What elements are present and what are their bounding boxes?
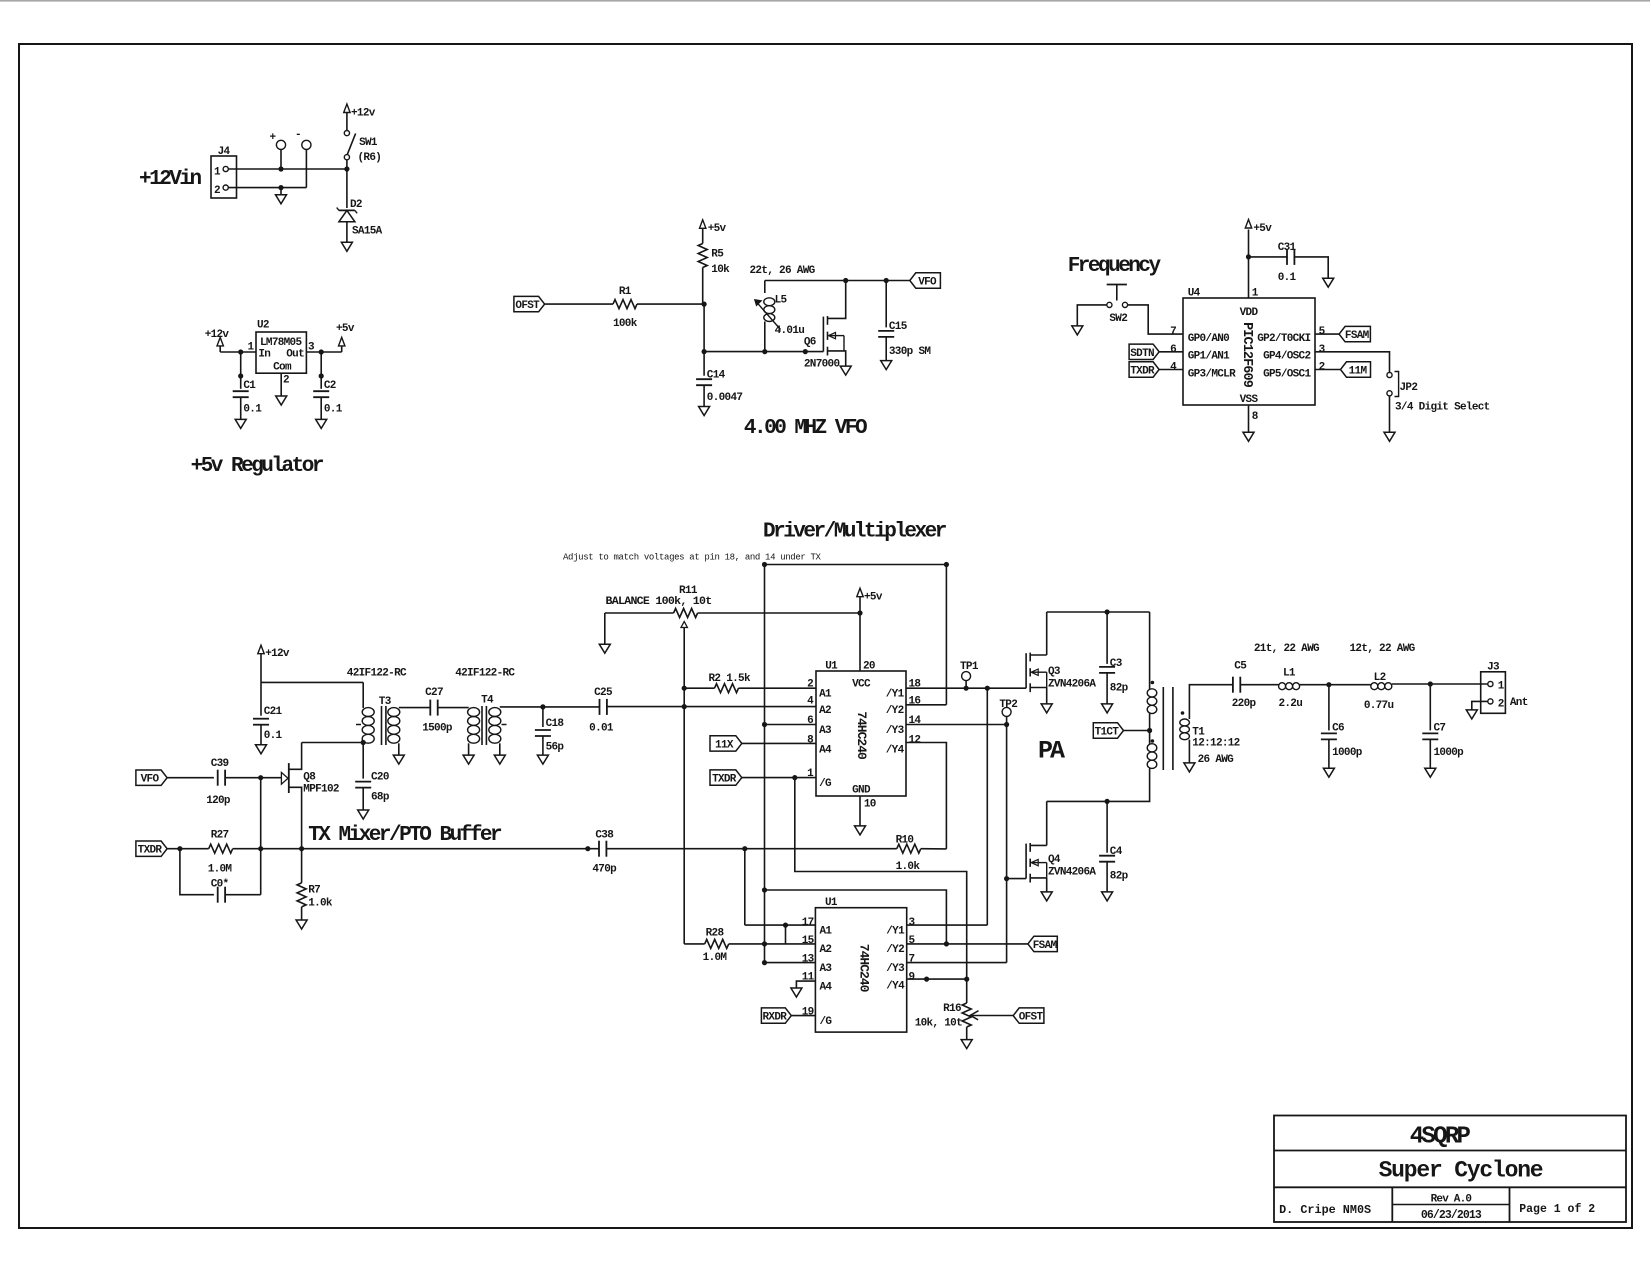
- power +5v: [857, 588, 883, 613]
- svg-text:C4: C4: [1110, 846, 1123, 858]
- svg-text:R28: R28: [706, 927, 725, 939]
- svg-text:19: 19: [802, 1007, 814, 1019]
- wire Q6 drain: [844, 281, 846, 319]
- svg-text:GP2/T0CKI: GP2/T0CKI: [1257, 333, 1310, 345]
- svg-text:/Y3: /Y3: [886, 725, 905, 737]
- ground: [1184, 763, 1195, 772]
- title block: [1274, 1116, 1626, 1223]
- svg-text:TP1: TP1: [960, 661, 979, 673]
- svg-text:C39: C39: [211, 758, 229, 770]
- junction: [924, 977, 929, 982]
- svg-text:C2: C2: [324, 380, 336, 392]
- label +5v Regulator: [191, 455, 324, 478]
- svg-text:FSAM: FSAM: [1345, 330, 1370, 342]
- svg-text:C38: C38: [595, 829, 614, 841]
- svg-text:R5: R5: [711, 249, 724, 261]
- ground: [881, 361, 892, 370]
- capacitor C6 1000p: [1321, 685, 1363, 769]
- svg-text:2: 2: [1498, 699, 1504, 711]
- transformer T3 42IF122-RC: [347, 667, 407, 755]
- label 4.00 MHZ VFO: [744, 417, 867, 440]
- ground: [1041, 704, 1052, 713]
- junction: [944, 562, 949, 567]
- svg-text:C21: C21: [264, 706, 283, 718]
- ground: [494, 755, 505, 764]
- ground: [1102, 704, 1113, 713]
- inductor L5 4.01u variable: [754, 295, 804, 352]
- svg-text:1.0M: 1.0M: [208, 864, 233, 876]
- svg-text:Rev A.0: Rev A.0: [1431, 1193, 1472, 1205]
- wire SW1 to D2: [346, 160, 348, 208]
- svg-text:OFST: OFST: [515, 300, 540, 312]
- wire rail to T1 top: [1149, 612, 1151, 689]
- junction: [682, 686, 687, 691]
- net TXDR: [710, 770, 816, 786]
- label TX Mixer/PTO Buffer: [308, 824, 502, 847]
- svg-text:A3: A3: [820, 963, 833, 975]
- svg-text:/Y3: /Y3: [886, 963, 905, 975]
- wire R27 to node: [233, 848, 302, 850]
- net TXDR: [136, 841, 167, 857]
- svg-text:22t, 26 AWG: 22t, 26 AWG: [750, 265, 816, 277]
- svg-text:Q8: Q8: [303, 771, 316, 783]
- wire /Y1 pin18: [906, 687, 1026, 689]
- junction: [944, 941, 949, 946]
- svg-text:C6: C6: [1332, 723, 1344, 735]
- junction Q8 source node: [299, 846, 304, 851]
- transistor Q8 MPF102 JFET: [281, 763, 338, 796]
- wire A3: [765, 962, 816, 964]
- wire /Y1 out: [907, 924, 988, 926]
- junction: [1004, 722, 1009, 727]
- ground: [699, 407, 710, 416]
- svg-text:R1: R1: [619, 286, 632, 298]
- IC U4 PIC12F609: [1170, 288, 1326, 424]
- svg-text:2.2u: 2.2u: [1278, 698, 1302, 710]
- svg-text:R16: R16: [943, 1003, 961, 1015]
- junction: [278, 185, 283, 190]
- junction: [278, 166, 283, 171]
- terminal + binding post: [270, 132, 286, 169]
- wire T1 sec bottom: [1188, 740, 1190, 763]
- svg-text:/Y4: /Y4: [886, 745, 905, 757]
- svg-text:C3: C3: [1110, 658, 1123, 670]
- net OFST: [1013, 1008, 1044, 1024]
- svg-text:7: 7: [909, 954, 915, 966]
- svg-text:+12v: +12v: [205, 329, 230, 341]
- svg-text:GP4/OSC2: GP4/OSC2: [1263, 351, 1310, 363]
- wire OFST to R1: [545, 303, 613, 305]
- svg-text:In: In: [258, 348, 270, 360]
- svg-text:10: 10: [864, 798, 876, 810]
- net VFO: [910, 273, 941, 289]
- resistor R10 1.0k: [896, 835, 921, 874]
- wire T1 bottom rail: [1047, 768, 1150, 801]
- wire /Y3 out: [907, 962, 1007, 964]
- svg-text:0.1: 0.1: [324, 403, 343, 415]
- junction: [762, 562, 767, 567]
- net RXDR: [761, 1008, 815, 1024]
- wire U2 com: [280, 373, 282, 396]
- IC U1 74HC240 driver: [807, 661, 921, 811]
- junction: [884, 278, 889, 283]
- ground: [341, 242, 352, 251]
- wire T1 sec top to C5: [1189, 685, 1233, 719]
- wire Q6 source: [844, 351, 846, 366]
- svg-text:12: 12: [909, 735, 921, 747]
- net TXDR: [1129, 362, 1183, 378]
- svg-text:C18: C18: [546, 718, 565, 730]
- svg-text:4.01u: 4.01u: [775, 325, 805, 337]
- ground: [1425, 768, 1436, 777]
- power +12v: [205, 329, 230, 352]
- svg-text:T1CT: T1CT: [1095, 727, 1120, 739]
- connector J4: [211, 146, 237, 198]
- svg-text:13: 13: [802, 954, 815, 966]
- resistor R27 1.0M: [208, 829, 233, 875]
- svg-text:10k, 10t: 10k, 10t: [915, 1017, 962, 1029]
- ground: [1072, 326, 1083, 335]
- svg-text:SW2: SW2: [1109, 313, 1127, 325]
- wire VFO to C39: [167, 777, 214, 779]
- svg-text:ZVN4206A: ZVN4206A: [1048, 867, 1096, 879]
- svg-text:/Y2: /Y2: [886, 944, 904, 956]
- wire U4 pin3 to JP2: [1315, 352, 1390, 373]
- capacitor C25 0.01: [589, 687, 614, 735]
- junction: [361, 740, 366, 745]
- svg-text:2: 2: [1319, 362, 1325, 374]
- wire A1: [745, 924, 816, 926]
- wire J4 pin2: [228, 187, 306, 189]
- svg-text:FSAM: FSAM: [1033, 940, 1058, 952]
- resistor R5 10k: [698, 244, 730, 276]
- junction: [783, 923, 788, 928]
- junction: [258, 846, 263, 851]
- junction: [762, 941, 767, 946]
- junction: [762, 960, 767, 965]
- wire T1 center tap: [1124, 714, 1153, 744]
- junction: [964, 686, 969, 691]
- junction: [319, 349, 324, 354]
- resistor R11 BALANCE 100k 10t: [605, 585, 860, 644]
- jumper JP2: [1387, 372, 1417, 397]
- junction: [857, 610, 862, 615]
- ground: [537, 755, 548, 764]
- wire wiper to R28: [683, 707, 685, 944]
- capacitor C31 0.1: [1249, 242, 1329, 284]
- wire source node to C38: [302, 848, 599, 850]
- wire A3 stub: [765, 724, 817, 726]
- svg-text:VSS: VSS: [1240, 394, 1259, 406]
- transformer T1 secondary: [1180, 711, 1240, 766]
- regulator U2 LM78M05: [247, 320, 315, 387]
- ground: [791, 988, 802, 997]
- ground: [599, 644, 610, 653]
- wire drop to lower A1: [744, 849, 746, 925]
- wire /Y2 out to FSAM: [907, 943, 1028, 945]
- svg-text:/G: /G: [820, 1016, 833, 1028]
- junction: [238, 349, 243, 354]
- testpoint TP1: [960, 661, 979, 688]
- resistor R7 1.0k: [297, 849, 333, 920]
- wire cross link: [765, 890, 947, 944]
- svg-text:RXDR: RXDR: [763, 1012, 788, 1024]
- transistor Q3 ZVN4206A: [1026, 653, 1096, 693]
- junction: [682, 704, 687, 709]
- net 11X: [710, 736, 816, 752]
- power +5v: [700, 220, 727, 244]
- svg-text:U4: U4: [1188, 288, 1201, 300]
- ground: [1243, 432, 1254, 441]
- inductor L2 0.77u: [1364, 672, 1394, 712]
- svg-text:ZVN4206A: ZVN4206A: [1048, 679, 1096, 691]
- ground: [1323, 768, 1334, 777]
- power +5v: [336, 323, 355, 352]
- svg-text:Ant: Ant: [1510, 697, 1528, 709]
- net T1CT: [1093, 723, 1123, 739]
- transformer T1 primary lower: [1147, 739, 1157, 768]
- wire TXDR to R27: [167, 848, 209, 850]
- junction: [344, 166, 349, 171]
- junction: [1246, 254, 1251, 259]
- node +12Vin label: [139, 168, 202, 191]
- wire Q8 source: [289, 787, 302, 848]
- ground: [961, 1040, 972, 1049]
- svg-text:Q4: Q4: [1048, 854, 1061, 866]
- svg-text:Page 1 of 2: Page 1 of 2: [1519, 1203, 1595, 1216]
- svg-text:U1: U1: [825, 897, 838, 909]
- svg-text:VFO: VFO: [918, 277, 937, 289]
- power +12v: [258, 645, 290, 682]
- svg-text:TX Mixer/PTO Buffer: TX Mixer/PTO Buffer: [308, 824, 502, 847]
- junction: [803, 349, 808, 354]
- svg-text:10k: 10k: [711, 264, 730, 276]
- transformer T4 42IF122-RC: [455, 667, 515, 755]
- svg-text:+5v Regulator: +5v Regulator: [191, 455, 324, 478]
- wire VSS: [1248, 405, 1250, 432]
- wire /G drop: [795, 778, 967, 980]
- wire C0 to gate node: [260, 778, 262, 895]
- svg-text:R10: R10: [896, 835, 914, 847]
- wire T3 sec to C27: [399, 707, 431, 709]
- svg-text:Q6: Q6: [804, 336, 816, 348]
- svg-text:42IF122-RC: 42IF122-RC: [455, 667, 515, 679]
- svg-text:R2 1.5k: R2 1.5k: [709, 673, 751, 685]
- wire R11 wiper: [681, 622, 687, 689]
- ground: [463, 755, 474, 764]
- wire /Y2 pin16: [906, 704, 946, 706]
- svg-text:VCC: VCC: [852, 679, 871, 691]
- svg-text:TXDR: TXDR: [1130, 366, 1155, 378]
- svg-text:+5v: +5v: [1253, 223, 1272, 235]
- ground: [316, 419, 327, 428]
- capacitor C15 330p: [878, 281, 931, 361]
- wire +12v rail to T3: [261, 681, 363, 683]
- svg-text:-: -: [295, 129, 301, 141]
- svg-text:C31: C31: [1278, 242, 1297, 254]
- junction: [1428, 681, 1433, 686]
- ground: [840, 366, 851, 375]
- wire VDD: [1248, 230, 1250, 299]
- svg-text:SW1: SW1: [359, 137, 378, 149]
- wire pin16 riser: [945, 565, 947, 705]
- svg-text:74HC240: 74HC240: [854, 711, 869, 760]
- ground: [1323, 278, 1334, 287]
- svg-text:1.0M: 1.0M: [703, 952, 728, 964]
- svg-text:TP2: TP2: [999, 699, 1017, 711]
- wire A3 riser: [764, 565, 766, 963]
- svg-text:12:12:12: 12:12:12: [1192, 738, 1239, 750]
- wire R28 to A2: [729, 943, 816, 945]
- wire A1 to A2 jumper: [785, 925, 787, 944]
- svg-text:330p SM: 330p SM: [889, 346, 931, 358]
- label PA: [1038, 736, 1065, 765]
- net OFST: [514, 296, 545, 312]
- power +12v: [344, 104, 376, 131]
- wire Q3 source to ground: [1046, 688, 1048, 704]
- svg-text:17: 17: [802, 917, 814, 929]
- connector J3 Ant: [1481, 662, 1528, 714]
- svg-text:220p: 220p: [1232, 698, 1257, 710]
- svg-text:0.01: 0.01: [589, 722, 614, 734]
- svg-text:J3: J3: [1487, 662, 1500, 674]
- wire Q4 gate stub: [1007, 878, 1027, 880]
- wire Q4 source to ground: [1046, 878, 1048, 892]
- svg-text:11M: 11M: [1349, 366, 1368, 378]
- svg-text:9: 9: [909, 972, 915, 984]
- label 3/4 Digit Select: [1395, 402, 1490, 414]
- wire /Y1 to lower U1: [986, 688, 988, 925]
- svg-text:Driver/Multiplexer: Driver/Multiplexer: [763, 521, 947, 544]
- wire /Y4 pin12: [906, 743, 946, 849]
- svg-text:U1: U1: [825, 661, 838, 673]
- wire /Y3 to Q4 gate: [1006, 725, 1008, 963]
- net FSAM: [1028, 936, 1058, 952]
- svg-text:1500p: 1500p: [422, 722, 453, 734]
- wire L5 top to VFO: [765, 281, 910, 294]
- junction: [1105, 799, 1110, 804]
- wire drain rail top: [1047, 611, 1150, 613]
- capacitor C39 120p: [206, 758, 231, 807]
- wire /Y3 pin14: [906, 724, 1007, 726]
- wire L2 to J3: [1392, 683, 1488, 685]
- svg-text:L1: L1: [1283, 668, 1296, 680]
- wire R1 to node: [637, 303, 704, 305]
- svg-text:+12v: +12v: [265, 648, 290, 660]
- junction: [843, 278, 848, 283]
- svg-text:26 AWG: 26 AWG: [1198, 754, 1235, 766]
- ground: [358, 810, 369, 819]
- junction: [585, 846, 590, 851]
- transformer T1 core: [1163, 687, 1173, 770]
- svg-text:+5v: +5v: [864, 591, 883, 603]
- junction: [762, 887, 767, 892]
- svg-text:1000p: 1000p: [1434, 747, 1465, 759]
- switch SW1 (R6): [344, 131, 381, 165]
- wire SW2 to U4 pin7: [1128, 305, 1183, 334]
- junction: [742, 846, 747, 851]
- capacitor C5 220p: [1232, 661, 1257, 710]
- ground: [276, 396, 287, 405]
- svg-text:42IF122-RC: 42IF122-RC: [347, 667, 407, 679]
- net FSAM: [1315, 326, 1370, 342]
- svg-text:L5: L5: [775, 295, 788, 307]
- svg-text:GP3/MCLR: GP3/MCLR: [1188, 368, 1236, 380]
- label 22t 26 AWG: [750, 265, 816, 277]
- capacitor C0* optional: [180, 849, 261, 903]
- svg-text:PIC12F609: PIC12F609: [1239, 322, 1254, 388]
- resistor R1 100k: [613, 286, 638, 330]
- svg-text:MPF102: MPF102: [303, 784, 339, 796]
- junction: [702, 349, 707, 354]
- inductor L1 2.2u: [1278, 668, 1302, 710]
- svg-text:2: 2: [283, 374, 289, 386]
- label Driver/Multiplexer: [763, 521, 947, 544]
- svg-text:470p: 470p: [592, 864, 617, 876]
- junction: [792, 775, 797, 780]
- svg-text:U2: U2: [257, 320, 269, 332]
- svg-text:A1: A1: [820, 926, 833, 938]
- wire Q8 drain to T3: [302, 742, 364, 744]
- svg-text:A3: A3: [819, 725, 832, 737]
- capacitor C1: [233, 352, 263, 419]
- svg-text:6: 6: [1170, 344, 1176, 356]
- svg-text:GP5/OSC1: GP5/OSC1: [1263, 368, 1311, 380]
- svg-text:0.1: 0.1: [243, 403, 262, 415]
- svg-text:Out: Out: [286, 348, 304, 360]
- svg-text:(R6): (R6): [358, 152, 382, 164]
- svg-text:1.0k: 1.0k: [896, 861, 921, 873]
- wire SW2 left to ground: [1077, 305, 1107, 326]
- wire C5 to L1: [1240, 684, 1278, 686]
- wire J3 pin2 to ground: [1472, 701, 1488, 710]
- power +5v: [1245, 220, 1272, 236]
- junction: [762, 349, 767, 354]
- wire Q8 drain: [289, 743, 302, 770]
- ground: [1102, 892, 1113, 901]
- ground: [276, 188, 287, 204]
- wire D2 to ground: [346, 222, 348, 243]
- svg-text:1000p: 1000p: [1332, 747, 1363, 759]
- junction: [258, 775, 263, 780]
- junction: [540, 704, 545, 709]
- svg-text:GP0/AN0: GP0/AN0: [1188, 333, 1229, 345]
- svg-text:0.0047: 0.0047: [707, 392, 743, 404]
- svg-text:J4: J4: [218, 146, 231, 158]
- junction: [964, 977, 969, 982]
- capacitor C38 470p: [592, 829, 617, 875]
- svg-text:82p: 82p: [1110, 683, 1129, 695]
- svg-text:TXDR: TXDR: [712, 774, 737, 786]
- junction: [985, 686, 990, 691]
- svg-text:20: 20: [863, 661, 875, 673]
- svg-text:D. Cripe NM0S: D. Cripe NM0S: [1279, 1203, 1371, 1217]
- svg-text:Frequency: Frequency: [1068, 255, 1162, 278]
- svg-text:/Y2: /Y2: [886, 705, 904, 717]
- svg-text:A2: A2: [820, 944, 832, 956]
- svg-text:C25: C25: [594, 687, 613, 699]
- net VFO: [136, 770, 167, 786]
- svg-text:0.1: 0.1: [264, 730, 283, 742]
- wire T4 sec to C25: [500, 706, 600, 708]
- wire R10 to pin12 riser: [921, 848, 947, 850]
- IC U1 74HC240 receiver: [802, 897, 916, 1032]
- wire R16 wiper to OFST: [970, 1011, 1013, 1020]
- svg-text:74HC240: 74HC240: [857, 944, 872, 993]
- wire feedback top: [765, 564, 947, 566]
- svg-text:SDTN: SDTN: [1130, 348, 1154, 360]
- note adjust: [563, 552, 822, 562]
